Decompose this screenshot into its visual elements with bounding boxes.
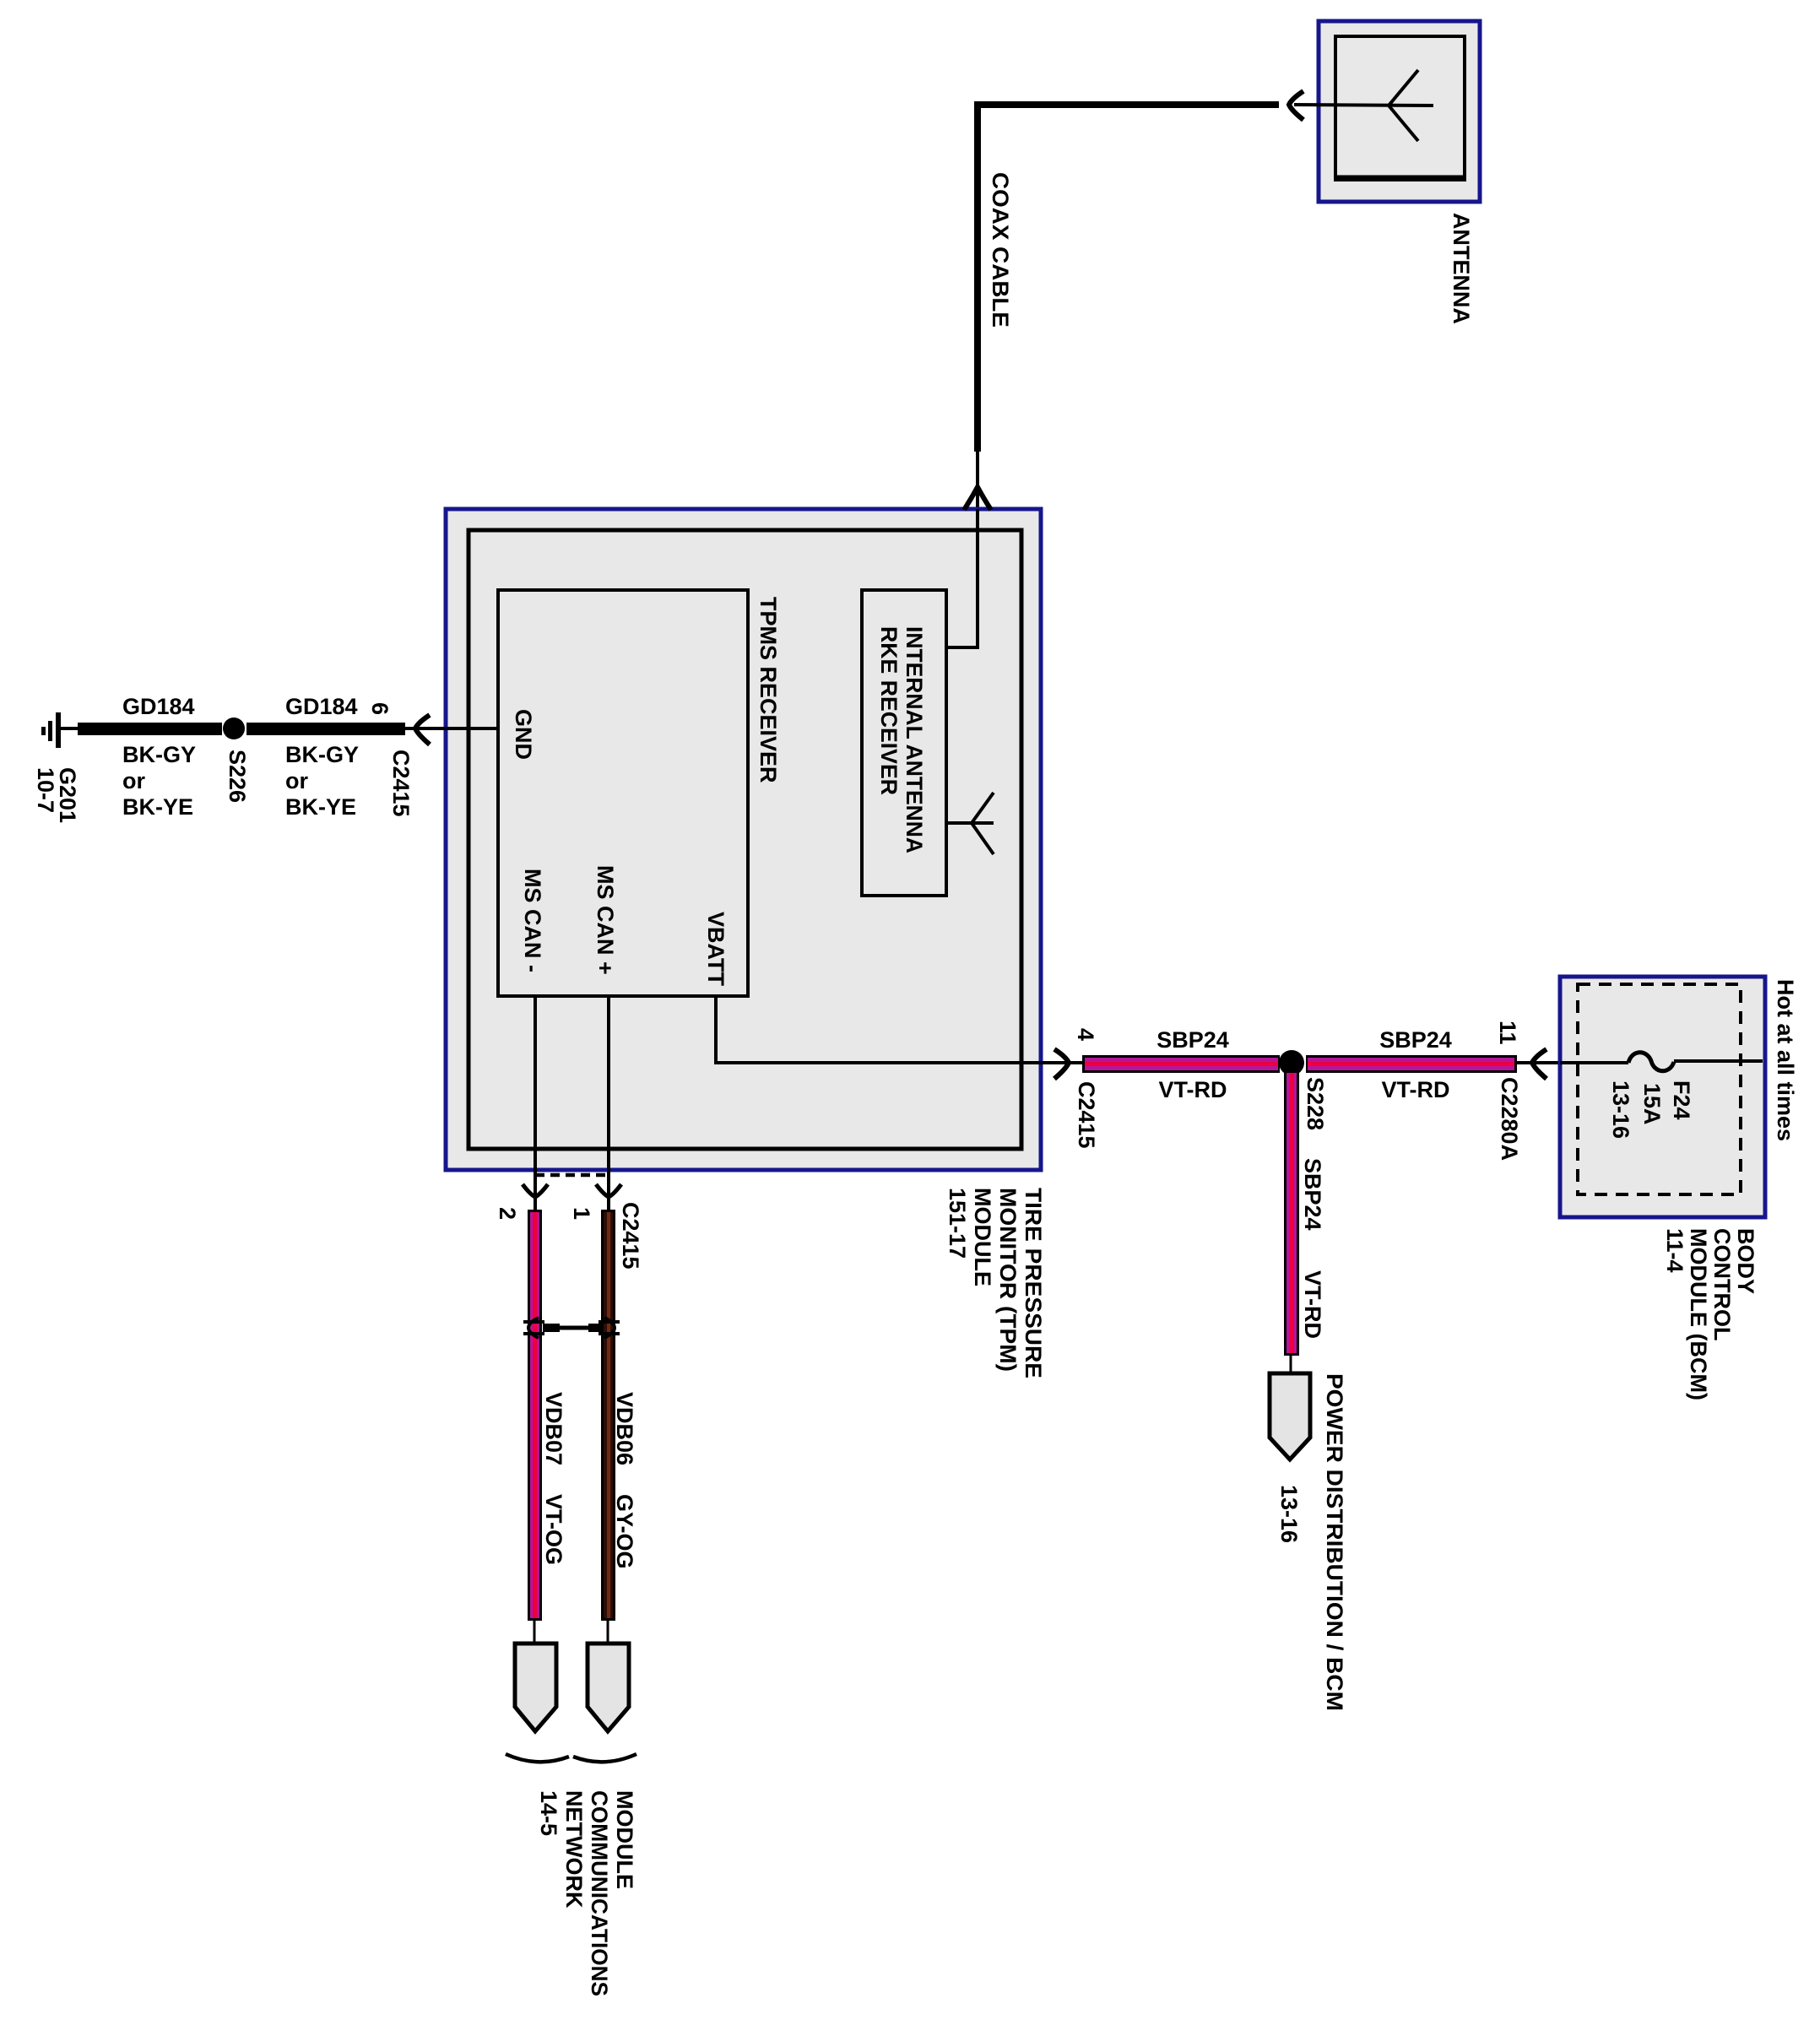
BCM box [1560, 977, 1765, 1217]
connector tie bar [557, 1326, 591, 1330]
svg-text:1: 1 [569, 1207, 594, 1220]
svg-text:VDB06: VDB06 [612, 1392, 637, 1465]
TPM module inner box [469, 530, 1021, 1149]
connector arrow C2280A pin 11 (points left) [1532, 1049, 1546, 1079]
off-page arrow POWER DISTRIBUTION [1270, 1373, 1310, 1459]
svg-text:TIRE PRESSUREMONITOR (TPM)MODU: TIRE PRESSUREMONITOR (TPM)MODULE151-17 [945, 1188, 1046, 1378]
svg-text:C2415: C2415 [388, 750, 414, 817]
connector arrow into TPM module (points up) [964, 487, 991, 510]
svg-text:13-16: 13-16 [1276, 1485, 1302, 1543]
svg-text:VDB07: VDB07 [541, 1392, 566, 1465]
svg-text:or: or [285, 768, 308, 793]
connector arrow C2415 pin 4 (points right) [1054, 1049, 1069, 1079]
svg-text:S226: S226 [225, 750, 250, 803]
svg-text:VT-RD: VT-RD [1382, 1077, 1450, 1102]
svg-text:F24: F24 [1669, 1080, 1694, 1120]
svg-text:2: 2 [495, 1207, 520, 1220]
TPM module outer box [446, 509, 1041, 1170]
connector arrow C2415 pin 6 (points left) [415, 715, 430, 745]
bundle brace [506, 1754, 636, 1762]
svg-text:C2415: C2415 [1074, 1081, 1099, 1149]
ground wire GD184 segment 1 (thick black) [78, 723, 222, 735]
in-line connector on VDB07 [523, 1318, 544, 1338]
svg-text:SBP24: SBP24 [1300, 1158, 1325, 1231]
wire inside BCM [1560, 1061, 1628, 1064]
RKE internal antenna symbol [946, 793, 994, 854]
svg-text:SBP24: SBP24 [1156, 1027, 1229, 1053]
fuse F24 [1628, 1053, 1674, 1071]
wire SBP24 VT-RD segment 1 [1082, 1055, 1280, 1073]
svg-text:BK-YE: BK-YE [122, 794, 193, 820]
wire VDB06 GY-OG (vertical band) [601, 1210, 615, 1621]
connector arrow C2415 pin 2 (points down) [523, 1184, 548, 1197]
svg-text:15A: 15A [1639, 1083, 1665, 1125]
TPMS receiver sub-box [498, 590, 748, 996]
coax lead inside module to RKE receiver [948, 509, 978, 647]
svg-text:6: 6 [367, 702, 393, 715]
svg-text:MS CAN +: MS CAN + [593, 865, 618, 975]
wire into GND pin [405, 727, 498, 730]
wire stubs to off-page arrows [534, 1621, 536, 1643]
svg-text:SBP24: SBP24 [1379, 1027, 1452, 1053]
svg-text:GD184: GD184 [122, 694, 195, 719]
svg-text:11: 11 [1495, 1021, 1520, 1045]
svg-text:Hot at all times: Hot at all times [1773, 979, 1798, 1141]
antenna box [1319, 21, 1480, 202]
svg-text:or: or [122, 768, 145, 793]
BCM dashed box [1578, 984, 1741, 1194]
coax thin lead to module [976, 452, 979, 511]
wire SBP24 VT-RD segment 2 [1306, 1055, 1517, 1073]
in-line connector on VDB06 [588, 1324, 601, 1332]
svg-text:VT-RD: VT-RD [1300, 1270, 1325, 1339]
svg-text:C2415: C2415 [618, 1202, 643, 1270]
off-page arrow MS CAN + [588, 1643, 629, 1731]
MS CAN wires from sub-box through module wall [534, 996, 537, 1210]
wire into BCM [1517, 1061, 1560, 1064]
off-page arrow MS CAN - [515, 1643, 556, 1731]
svg-text:VBATT: VBATT [703, 912, 729, 986]
svg-text:BK-GY: BK-GY [285, 742, 359, 767]
internal antenna RKE receiver box [862, 590, 946, 896]
svg-text:POWER DISTRIBUTION / BCM: POWER DISTRIBUTION / BCM [1322, 1373, 1347, 1711]
svg-text:MODULECOMMUNICATIONSNETWORK14-: MODULECOMMUNICATIONSNETWORK14-5 [536, 1790, 637, 1996]
svg-text:S228: S228 [1303, 1077, 1328, 1130]
splice branch wire SBP24 (vertical) [1284, 1073, 1299, 1356]
svg-text:COAX CABLE: COAX CABLE [988, 172, 1013, 328]
svg-text:G20110-7: G20110-7 [33, 767, 80, 823]
connector arrow C2415 pin 1 (points down) [596, 1184, 621, 1197]
svg-text:ANTENNA: ANTENNA [1449, 213, 1474, 324]
svg-text:GY-OG: GY-OG [612, 1494, 637, 1569]
svg-text:VT-OG: VT-OG [541, 1494, 566, 1565]
coax cable thick wire [978, 105, 1279, 452]
VBATT wire inside module [716, 996, 1082, 1063]
svg-text:GND: GND [511, 709, 536, 760]
antenna symbol [1294, 70, 1433, 141]
svg-text:C2280A: C2280A [1497, 1077, 1522, 1161]
wire to power distribution arrow [1290, 1356, 1292, 1373]
wire VDB07 VT-OG (vertical band) [528, 1210, 542, 1621]
svg-text:BODYCONTROLMODULE (BCM)11-4: BODYCONTROLMODULE (BCM)11-4 [1662, 1228, 1758, 1400]
svg-text:GD184: GD184 [285, 694, 358, 719]
svg-text:MS CAN -: MS CAN - [520, 869, 545, 972]
svg-text:4: 4 [1073, 1028, 1098, 1041]
svg-text:VT-RD: VT-RD [1159, 1077, 1227, 1102]
svg-text:13-16: 13-16 [1608, 1080, 1633, 1139]
svg-text:TPMS RECEIVER: TPMS RECEIVER [756, 597, 781, 783]
splice S228 [1279, 1050, 1304, 1075]
splice S226 [223, 717, 245, 739]
ground G201 symbol [41, 712, 78, 748]
twisted pair dashed tie [535, 1173, 609, 1178]
svg-text:BK-GY: BK-GY [122, 742, 196, 767]
connector arrow at antenna (points left) [1289, 91, 1303, 120]
svg-text:BK-YE: BK-YE [285, 794, 356, 820]
ground wire GD184 segment 2 (thick black) [246, 723, 405, 735]
